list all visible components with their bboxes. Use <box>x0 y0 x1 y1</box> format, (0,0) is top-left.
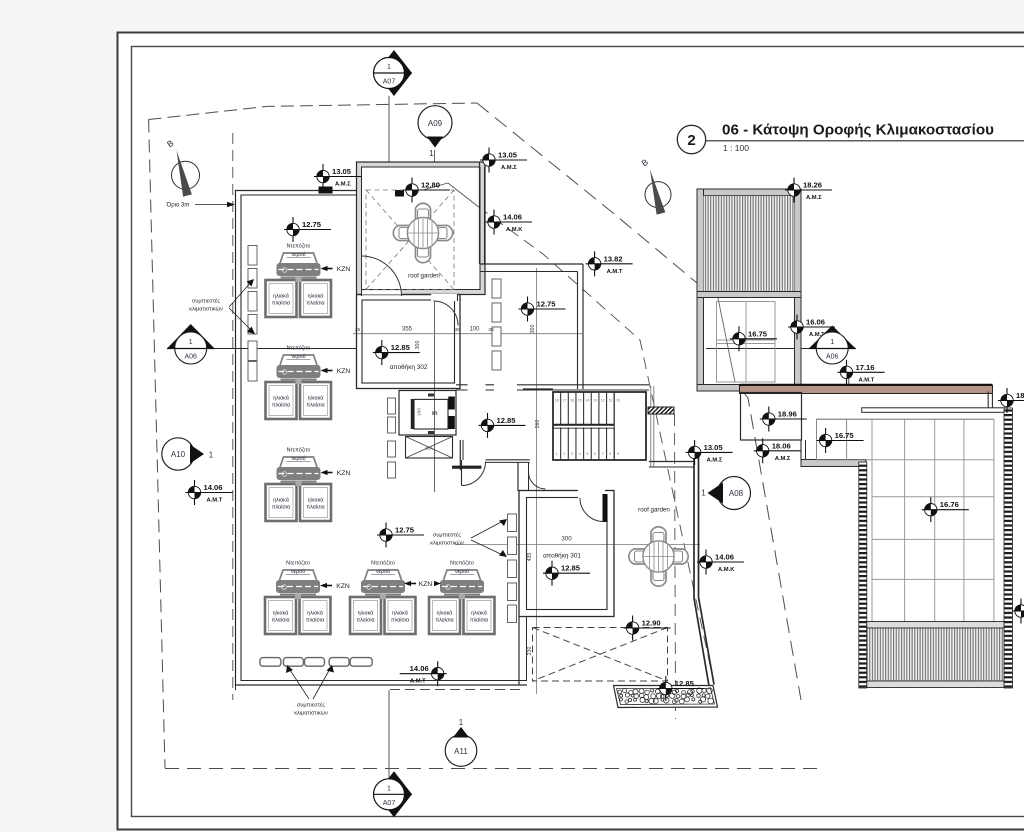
svg-text:πλαίσια: πλαίσια <box>272 505 290 511</box>
svg-text:Α.Μ.Σ: Α.Μ.Σ <box>775 456 791 462</box>
svg-text:KZN: KZN <box>337 266 351 273</box>
svg-text:25: 25 <box>355 327 361 333</box>
svg-text:ηλιακά: ηλιακά <box>273 610 289 617</box>
svg-text:13.05: 13.05 <box>498 151 518 160</box>
svg-text:νερού: νερού <box>291 456 305 462</box>
svg-text:ηλιακά: ηλιακά <box>273 293 289 300</box>
svg-text:10: 10 <box>616 399 620 403</box>
svg-text:18.96: 18.96 <box>778 410 797 419</box>
svg-text:συμπιεστές: συμπιεστές <box>297 702 325 709</box>
svg-text:300: 300 <box>415 341 421 350</box>
svg-text:2: 2 <box>687 132 695 149</box>
svg-text:Ντεπόζιτο: Ντεπόζιτο <box>286 560 310 567</box>
svg-text:12.75: 12.75 <box>302 220 322 229</box>
svg-text:Α.Μ.Κ: Α.Μ.Κ <box>718 567 735 573</box>
svg-text:18.06: 18.06 <box>1016 391 1024 400</box>
svg-text:17: 17 <box>563 399 567 403</box>
svg-text:100: 100 <box>469 327 480 333</box>
svg-text:14.06: 14.06 <box>410 664 429 673</box>
svg-text:Α.Μ.Σ: Α.Μ.Σ <box>501 165 517 171</box>
svg-text:17.16: 17.16 <box>856 363 875 372</box>
svg-text:Φ/Α: Φ/Α <box>425 446 433 451</box>
svg-text:Ντεπόζιτο: Ντεπόζιτο <box>371 560 395 567</box>
svg-text:1: 1 <box>189 339 193 346</box>
svg-text:ηλιακά: ηλιακά <box>308 395 324 402</box>
svg-text:A07: A07 <box>383 800 396 807</box>
svg-text:5: 5 <box>586 452 588 456</box>
svg-text:Α.Μ.Κ: Α.Μ.Κ <box>506 227 523 233</box>
svg-text:6: 6 <box>594 452 596 456</box>
svg-text:A07: A07 <box>383 79 396 86</box>
svg-text:355: 355 <box>402 327 413 333</box>
svg-text:16.75: 16.75 <box>835 431 855 440</box>
svg-text:14: 14 <box>586 399 590 403</box>
svg-text:Ντεπόζιτο: Ντεπόζιτο <box>287 243 311 250</box>
svg-text:Α.Μ.Τ: Α.Μ.Τ <box>607 269 623 275</box>
svg-text:16: 16 <box>570 399 574 403</box>
svg-text:260: 260 <box>535 420 541 429</box>
svg-text:κλιματιστικών: κλιματιστικών <box>430 541 464 547</box>
svg-text:roof garden: roof garden <box>408 273 440 280</box>
svg-text:06 - Κάτοψη Οροφής Κλιμακοστασ: 06 - Κάτοψη Οροφής Κλιμακοστασίου <box>722 122 994 139</box>
svg-text:KZN: KZN <box>337 470 351 477</box>
svg-text:16.76: 16.76 <box>940 500 959 509</box>
svg-text:νερού: νερού <box>455 569 469 575</box>
svg-text:νερού: νερού <box>291 252 305 258</box>
svg-text:12.75: 12.75 <box>537 300 557 309</box>
svg-text:300: 300 <box>561 536 572 543</box>
svg-text:1: 1 <box>459 718 464 727</box>
svg-text:KZN: KZN <box>337 368 351 375</box>
svg-text:1: 1 <box>429 149 434 158</box>
svg-text:Ντεπόζιτο: Ντεπόζιτο <box>450 560 474 567</box>
svg-text:ηλιακά: ηλιακά <box>308 293 324 300</box>
svg-text:30: 30 <box>455 327 461 333</box>
svg-text:ηλιακά: ηλιακά <box>358 610 374 617</box>
svg-text:A10: A10 <box>171 450 186 459</box>
svg-text:12.75: 12.75 <box>395 526 415 535</box>
svg-text:πλαίσια: πλαίσια <box>391 618 409 624</box>
svg-text:435: 435 <box>527 553 533 562</box>
svg-text:12.85: 12.85 <box>675 679 695 688</box>
svg-text:ηλιακά: ηλιακά <box>307 610 323 617</box>
svg-text:νερού: νερού <box>291 569 305 575</box>
svg-text:18.26: 18.26 <box>803 181 822 190</box>
svg-text:12.90: 12.90 <box>642 619 661 628</box>
svg-text:9: 9 <box>617 452 619 456</box>
svg-text:KZN: KZN <box>419 581 433 588</box>
svg-text:14.06: 14.06 <box>503 213 522 222</box>
svg-text:Α.Μ.Τ: Α.Μ.Τ <box>410 679 426 685</box>
svg-text:1: 1 <box>209 451 214 460</box>
svg-text:πλαίσια: πλαίσια <box>306 403 324 409</box>
svg-text:11: 11 <box>609 399 613 403</box>
svg-text:roof garden: roof garden <box>638 507 670 514</box>
svg-text:14.06: 14.06 <box>204 483 223 492</box>
svg-text:12: 12 <box>601 399 605 403</box>
svg-text:8: 8 <box>609 452 611 456</box>
svg-text:13: 13 <box>593 399 597 403</box>
svg-text:15: 15 <box>578 399 582 403</box>
svg-text:300: 300 <box>530 325 536 334</box>
svg-text:1: 1 <box>387 785 391 792</box>
svg-text:4: 4 <box>579 452 581 456</box>
svg-text:πλαίσια: πλαίσια <box>272 301 290 307</box>
svg-text:συμπιεστές: συμπιεστές <box>433 532 461 539</box>
svg-text:1: 1 <box>701 489 706 498</box>
svg-text:ηλιακά: ηλιακά <box>437 610 453 617</box>
svg-text:16.75: 16.75 <box>748 329 768 338</box>
svg-text:12.85: 12.85 <box>561 564 581 573</box>
svg-text:12.85: 12.85 <box>497 416 517 425</box>
svg-text:Α.Μ.Τ: Α.Μ.Τ <box>859 377 875 383</box>
svg-text:νερού: νερού <box>376 569 390 575</box>
svg-text:1: 1 <box>830 339 834 346</box>
svg-text:A08: A08 <box>729 489 744 498</box>
svg-text:13.05: 13.05 <box>704 443 724 452</box>
svg-text:κλιματιστικών: κλιματιστικών <box>294 711 328 717</box>
svg-text:αποθήκη 301: αποθήκη 301 <box>543 553 581 560</box>
svg-text:18.06: 18.06 <box>772 441 791 450</box>
svg-text:νερού: νερού <box>291 354 305 360</box>
svg-text:A06: A06 <box>826 354 839 361</box>
svg-text:KZN: KZN <box>336 583 350 590</box>
svg-text:πλαίσια: πλαίσια <box>435 618 453 624</box>
svg-text:16.06: 16.06 <box>806 318 825 327</box>
svg-text:12.85: 12.85 <box>391 343 411 352</box>
svg-text:Α.Μ.Σ: Α.Μ.Σ <box>335 182 351 188</box>
svg-text:ηλιακά: ηλιακά <box>392 610 408 617</box>
svg-text:Όριο 3m: Όριο 3m <box>166 203 190 209</box>
svg-text:πλαίσια: πλαίσια <box>356 618 374 624</box>
svg-text:πλαίσια: πλαίσια <box>470 618 488 624</box>
svg-text:12.80: 12.80 <box>421 181 440 190</box>
svg-text:18: 18 <box>555 399 559 403</box>
svg-text:2: 2 <box>564 452 566 456</box>
svg-text:Ντεπόζιτο: Ντεπόζιτο <box>287 345 311 352</box>
svg-text:ηλιακά: ηλιακά <box>308 497 324 504</box>
svg-text:3: 3 <box>571 452 573 456</box>
svg-text:αποθήκη 302: αποθήκη 302 <box>390 364 428 371</box>
svg-text:13.82: 13.82 <box>604 254 623 263</box>
svg-text:κλιματιστικών: κλιματιστικών <box>189 307 223 313</box>
svg-text:Ντεπόζιτο: Ντεπόζιτο <box>287 447 311 454</box>
svg-text:πλαίσια: πλαίσια <box>306 618 324 624</box>
svg-text:160: 160 <box>417 408 423 416</box>
svg-text:30: 30 <box>488 327 494 333</box>
svg-text:Α.Μ.Τ: Α.Μ.Τ <box>207 498 223 504</box>
svg-text:1: 1 <box>556 452 558 456</box>
svg-text:7: 7 <box>602 452 604 456</box>
svg-text:14.06: 14.06 <box>715 553 734 562</box>
svg-text:Α.Μ.Σ: Α.Μ.Σ <box>806 195 822 201</box>
svg-text:A06: A06 <box>184 354 197 361</box>
svg-text:1: 1 <box>387 64 391 71</box>
svg-text:ηλιακά: ηλιακά <box>273 497 289 504</box>
svg-text:A09: A09 <box>428 119 443 128</box>
svg-text:A11: A11 <box>454 747 468 756</box>
svg-text:ηλιακά: ηλιακά <box>471 610 487 617</box>
svg-text:πλαίσια: πλαίσια <box>306 301 324 307</box>
svg-text:13.05: 13.05 <box>332 167 352 176</box>
svg-text:1 : 100: 1 : 100 <box>723 143 749 153</box>
svg-text:πλαίσια: πλαίσια <box>271 618 289 624</box>
svg-text:Α.Μ.Σ: Α.Μ.Σ <box>707 457 723 463</box>
svg-text:ηλιακά: ηλιακά <box>273 395 289 402</box>
svg-text:πλαίσια: πλαίσια <box>306 505 324 511</box>
svg-text:πλαίσια: πλαίσια <box>272 403 290 409</box>
svg-text:lift: lift <box>432 411 438 417</box>
svg-text:συμπιεστές: συμπιεστές <box>192 298 220 305</box>
